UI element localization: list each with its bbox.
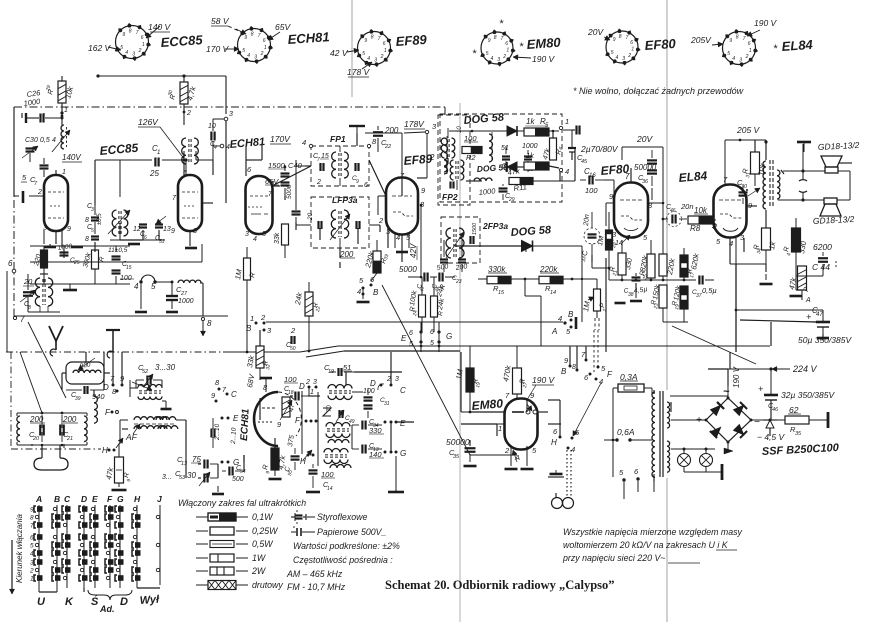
legend styroflex cap [294,513,296,521]
svg-text:25: 25 [73,260,80,266]
svg-text:24: 24 [412,310,419,318]
wire osc top link [352,391,363,393]
capacitor C31a [40,164,49,166]
diode D3 AM [522,241,533,252]
main bus wire [6,351,223,353]
svg-text:1: 1 [631,47,634,53]
resistor R13 220 [41,250,48,268]
svg-text:R8: R8 [690,224,701,233]
svg-text:E: E [400,419,406,428]
svg-text:5: 5 [242,48,245,54]
svg-text:65V: 65V [275,22,291,32]
capacitor C6 [139,223,147,225]
svg-text:25: 25 [149,169,159,178]
svg-text:21: 21 [612,270,619,278]
output transformer T5 [763,161,766,209]
svg-text:4: 4 [52,137,56,144]
wire [120,159,152,161]
wire AVC y322 [266,321,563,323]
trimmer caps Z [323,408,331,416]
svg-text:H: H [551,438,557,447]
svg-text:9: 9 [171,228,175,235]
module box FM tuner [14,106,445,108]
svg-text:1: 1 [310,389,314,396]
svg-text:46: 46 [772,407,779,413]
resistor R34 1k [762,228,771,250]
speaker LS1 [825,167,838,173]
svg-text:9: 9 [729,38,732,44]
wire [94,205,96,215]
capacitor C51 [155,223,163,225]
svg-text:5: 5 [30,543,34,550]
module box ratio detector DOG58 [440,114,562,202]
svg-text:18: 18 [288,390,294,396]
wire B+ rail top-left [13,107,15,196]
svg-text:Ś: Ś [91,595,99,608]
inductor L1 tuning [61,125,64,149]
wire b+ to output [735,264,737,352]
AM antenna input [112,330,114,352]
svg-text:EL84: EL84 [678,169,708,185]
svg-text:1500: 1500 [268,161,286,170]
svg-text:8: 8 [251,32,254,38]
svg-text:C: C [64,494,71,504]
svg-text:330: 330 [369,426,382,435]
heater lamps wire [671,448,715,450]
svg-text:8: 8 [572,364,576,371]
svg-text:42V: 42V [409,243,418,258]
svg-text:4: 4 [599,377,603,386]
svg-text:0,1W: 0,1W [252,512,273,522]
svg-text:11±0,5: 11±0,5 [108,247,128,254]
svg-text:EL84: EL84 [781,37,814,54]
svg-text:C: C [400,386,406,395]
svg-text:9: 9 [244,35,247,41]
ferrite antenna L9 [66,362,104,384]
module box 2FP3a [441,217,480,263]
svg-text:7: 7 [625,172,630,181]
wire [351,0,353,97]
svg-text:ECH81: ECH81 [287,29,330,47]
wire [470,411,505,413]
svg-text:21: 21 [66,436,73,442]
wire [261,144,263,160]
wire [339,238,341,248]
svg-text:2: 2 [502,54,506,60]
svg-text:1000: 1000 [178,298,194,305]
contacts E mid [221,417,224,420]
svg-text:10: 10 [208,123,216,130]
resistor R24 47k [798,266,807,290]
wire to EM80 grid [548,423,561,425]
diagonal feed [672,326,756,364]
svg-text:2: 2 [305,379,310,386]
diode D1 DOG58 [507,126,517,136]
wire [183,76,185,82]
resistor R17 620k [680,255,688,277]
svg-text:1: 1 [506,48,509,54]
wire [390,352,392,385]
capacitor C25 1000 [60,251,69,253]
wire top rail [98,75,226,77]
svg-text:AM – 465 kHz: AM – 465 kHz [286,569,343,579]
resistor R32 33k [256,346,264,368]
svg-text:9: 9 [122,32,125,38]
resistor R31 10k [751,152,760,174]
svg-text:8: 8 [619,34,622,40]
svg-text:162 V: 162 V [88,43,112,53]
wire 20V box [622,146,663,148]
svg-text:5000: 5000 [286,184,293,199]
svg-text:5: 5 [486,51,489,57]
svg-text:*: * [519,41,524,53]
svg-text:EF89: EF89 [395,32,428,49]
oscillator coil T6 [328,385,352,389]
svg-text:0,25W: 0,25W [252,526,278,536]
svg-text:A: A [805,297,811,304]
pentode U2 ECH81 [246,176,273,234]
svg-text:1: 1 [62,169,66,176]
svg-text:6: 6 [263,38,266,44]
wire 205V rail [725,139,760,141]
capacitor top T-bar [349,125,365,127]
inductor L12 [17,416,20,442]
capacitor C22 200 [373,131,383,133]
power transformer secondary HT [667,402,670,428]
tube socket V5 EF80 [606,31,638,63]
svg-text:*: * [773,43,778,55]
wire [605,258,607,352]
svg-text:2FP3a: 2FP3a [482,221,508,231]
svg-text:7: 7 [378,36,381,42]
svg-text:22: 22 [384,144,391,150]
svg-text:4: 4 [30,551,34,558]
svg-text:15: 15 [126,265,132,271]
svg-text:2: 2 [260,51,264,57]
capacitor C54 500 [228,467,230,476]
resistor Rg 47 [282,397,290,417]
wire [459,103,461,622]
svg-text:35: 35 [453,454,460,460]
resistor R16 300k [92,250,99,269]
wire inner box bottom [30,261,202,263]
svg-text:*: * [472,48,477,60]
svg-text:2: 2 [745,54,749,60]
resistor R19b 4.7k [271,448,279,470]
svg-text:49: 49 [349,419,355,425]
svg-text:14: 14 [327,486,333,492]
svg-text:7: 7 [317,157,320,163]
svg-text:126V: 126V [138,117,159,127]
svg-text:51: 51 [343,363,351,372]
svg-text:woltomierzem 20 kΩ/V na zakr: woltomierzem 20 kΩ/V na zakresach U i K [563,540,729,550]
svg-text:0,6A: 0,6A [617,427,635,437]
svg-text:6: 6 [748,41,751,47]
wire contacts risers [569,346,571,366]
wire bridge AC [727,386,729,398]
wire [478,278,487,280]
svg-text:140 V: 140 V [148,22,172,32]
wire AM ant risers [31,444,33,446]
svg-text:Kierunek włączania: Kierunek włączania [15,514,24,583]
svg-text:50µ 350/385V: 50µ 350/385V [798,335,852,345]
matrix bottom links [38,588,40,592]
svg-text:1: 1 [384,48,387,54]
wire [55,231,57,244]
svg-text:51: 51 [501,145,509,152]
svg-text:AF: AF [125,432,138,442]
triode U1a ECC85 [44,175,68,231]
svg-text:EF89: EF89 [403,152,433,168]
wire EF80 bottom grounds [635,288,637,298]
svg-text:1W: 1W [252,553,266,563]
IF transformer T2 LFP3a [331,210,336,238]
svg-text:6: 6 [364,182,368,189]
resistor R25b 24k [431,296,438,317]
svg-text:4: 4 [571,445,575,454]
pin 1 [559,126,562,129]
svg-text:1: 1 [749,48,752,54]
bridge diode D4 [710,402,724,416]
tube socket V3 EF89 [358,32,391,65]
svg-text:27: 27 [180,291,188,297]
svg-text:0,5: 0,5 [40,137,50,144]
detector transformer L7 [489,134,493,162]
svg-text:1: 1 [565,117,569,126]
svg-text:drutowy: drutowy [252,580,283,590]
svg-text:H: H [102,446,108,455]
wire EM80 rails [516,394,518,398]
tube socket V4 EM80 [481,32,513,64]
wire discr [119,223,121,240]
oscillator coil T8 [324,449,348,453]
svg-text:A: A [35,494,42,504]
svg-text:6: 6 [8,259,13,268]
svg-text:2: 2 [29,568,34,575]
svg-text:100: 100 [284,375,297,384]
svg-text:200: 200 [384,126,399,135]
svg-text:1: 1 [250,314,254,323]
IF transformer T3 FP2 upper [441,138,444,158]
svg-text:Wartości podkreślone: ±2%: Wartości podkreślone: ±2% [293,541,400,551]
svg-text:500: 500 [232,476,244,483]
svg-text:62: 62 [789,405,799,415]
svg-text:3: 3 [30,560,34,567]
svg-text:2: 2 [290,326,296,335]
wire EF89 pin8 drop [420,204,422,240]
wire AM det to pot [563,278,597,280]
svg-text:9: 9 [364,38,367,44]
capacitor plate [797,141,811,144]
svg-text:przy napięciu sieci 220 V~: przy napięciu sieci 220 V~ [562,553,665,563]
svg-text:46: 46 [670,208,676,214]
svg-text:Papierowe 500V_: Papierowe 500V_ [317,527,387,537]
wire resistor bottoms tuner [43,268,45,284]
svg-text:2: 2 [711,221,717,230]
svg-text:Wył: Wył [139,594,160,607]
svg-text:6: 6 [630,40,633,46]
wire DOG58 out to EF80 [604,179,614,181]
capacitor C38 4.5u [632,276,641,278]
wire [339,146,341,152]
wire [140,284,142,309]
wire AF row risers [591,255,593,268]
svg-text:4: 4 [253,236,257,243]
svg-text:3: 3 [739,57,742,63]
svg-text:1: 1 [142,42,145,48]
dial lamp LA2 [700,454,713,467]
svg-text:1: 1 [157,150,160,156]
tube internal [262,407,276,409]
svg-text:1: 1 [30,576,34,583]
svg-text:7: 7 [30,523,34,530]
wire [408,276,422,278]
svg-text:140V: 140V [62,153,81,162]
wire [55,170,57,176]
bridge diode D6 [710,424,724,438]
svg-text:32µ 350/385V: 32µ 350/385V [781,390,835,400]
tube internal dashes [719,199,742,201]
wire EF89 connections [378,195,386,197]
svg-text:100: 100 [464,134,477,143]
svg-text:190 V: 190 V [732,366,741,388]
FM dipole antenna [49,326,63,341]
wire [809,419,828,421]
resistor R18 820k [647,254,655,278]
capacitor C15 100 [112,255,121,257]
svg-text:100: 100 [120,275,132,282]
wire [727,369,729,386]
wire [220,144,224,148]
svg-text:52: 52 [142,369,148,375]
triode U1b ECC85 [178,175,202,231]
svg-text:1: 1 [264,45,267,51]
svg-text:178 V: 178 V [347,67,371,77]
svg-text:0,5µ: 0,5µ [702,286,717,295]
svg-text:31: 31 [384,401,390,407]
resistor R24a 100k [419,295,426,317]
contacts G mid [221,461,224,464]
wire [61,76,63,81]
svg-text:ECC85: ECC85 [160,32,204,50]
svg-text:0,3A: 0,3A [620,372,638,382]
dial drive pulleys [552,498,563,509]
wire EL84 cathode [735,238,737,264]
svg-text:8: 8 [736,35,739,41]
svg-text:Wszystkie napięcia mierzone: Wszystkie napięcia mierzone względem mas… [563,527,743,537]
svg-text:3: 3 [395,376,399,383]
svg-text:6: 6 [383,41,386,47]
svg-text:140: 140 [369,450,382,459]
svg-text:29: 29 [508,197,515,203]
svg-text:58 V: 58 V [211,16,230,26]
svg-text:1000: 1000 [478,186,496,197]
svg-text:4: 4 [125,50,128,56]
capacitor C45 2u [568,147,576,149]
svg-text:5: 5 [727,51,730,57]
svg-text:EM80: EM80 [526,35,562,52]
resistor R6 47k [550,138,557,160]
svg-text:10: 10 [457,126,463,133]
wire [189,231,191,246]
svg-text:4: 4 [134,282,139,291]
svg-text:9: 9 [488,38,491,44]
svg-text:B: B [54,494,60,504]
wire [17,412,87,414]
capacitor in LFP3a right [355,221,357,229]
svg-text:5: 5 [362,51,365,57]
svg-text:4: 4 [558,314,562,323]
ground [505,468,518,471]
pin 4 [559,168,562,171]
svg-text:D: D [81,494,87,504]
capacitor C26 [25,113,27,123]
resistor R22 220k [659,254,667,276]
svg-text:D: D [370,379,376,388]
svg-text:13: 13 [181,461,188,467]
svg-text:4: 4 [357,287,361,296]
wire ground bus tuner [30,245,130,247]
svg-text:22: 22 [315,306,322,314]
svg-text:7: 7 [258,33,261,39]
svg-text:− 4,5 V: − 4,5 V [757,432,786,442]
svg-text:2: 2 [138,48,142,54]
svg-text:1: 1 [498,424,502,433]
IF transformer T1 FP1 [332,152,336,178]
zener diode D8 [766,420,774,428]
svg-text:8: 8 [129,29,132,35]
bridge diode D7 [733,424,747,438]
svg-text:Styroflexowe: Styroflexowe [317,512,367,522]
svg-text:EF80: EF80 [644,36,677,53]
capacitor C4 10 [210,132,212,141]
capacitor C14b 100 [309,469,318,471]
svg-text:36: 36 [642,179,649,185]
wire speaker bus [783,170,825,172]
tube socket V6 EL84 [723,32,756,65]
svg-text:R11: R11 [513,182,527,193]
svg-text:27: 27 [522,382,529,390]
svg-text:2: 2 [316,179,321,186]
wire [104,372,110,374]
pentode U3 EF89 [386,178,418,235]
svg-text:13: 13 [163,226,171,233]
svg-text:38: 38 [628,292,634,298]
wire [517,166,524,168]
wire [559,400,561,437]
svg-text:3: 3 [497,57,500,63]
svg-text:7: 7 [743,36,746,42]
resistor R9b 4.7k [115,457,124,483]
svg-text:9: 9 [356,179,359,185]
ground [357,301,370,304]
speaker LS2 [824,198,837,204]
svg-text:FM - 10,7 MHz: FM - 10,7 MHz [287,582,346,592]
svg-text:3: 3 [374,57,377,63]
svg-text:2...10: 2...10 [230,427,238,445]
svg-text:Włączony zakres fal ultrakrótk: Włączony zakres fal ultrakrótkich [178,498,306,508]
ground [550,473,563,476]
svg-text:8: 8 [371,35,374,41]
svg-text:205 V: 205 V [736,125,761,135]
svg-text:1000: 1000 [522,143,538,150]
wire [130,387,138,389]
svg-text:−: − [754,417,760,428]
inductor L5 choke [178,280,201,283]
svg-text:50: 50 [290,346,296,352]
svg-text:E: E [233,414,239,423]
svg-text:6: 6 [141,35,144,41]
